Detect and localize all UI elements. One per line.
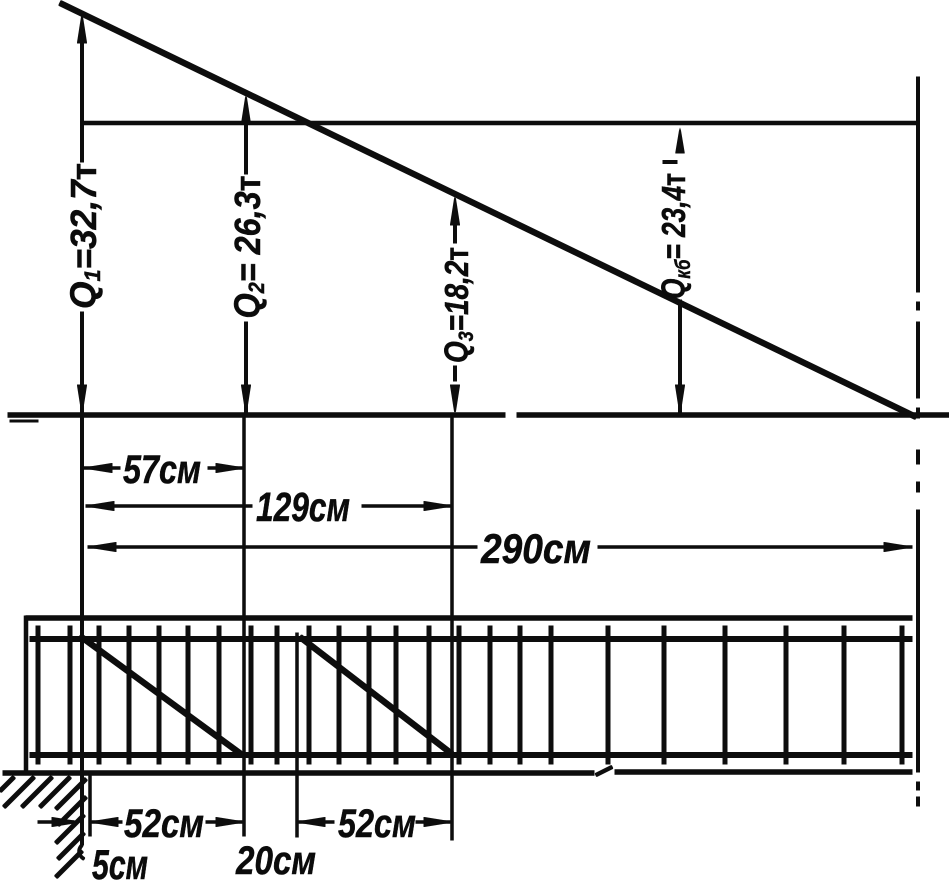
arrow Q1 head down [78,385,87,414]
svg-text:Q1=32,7т: Q1=32,7т [63,163,105,309]
arrow Q1 shaft lower [81,312,84,412]
stirrup x=844 [842,626,846,764]
extension line 5cm offset x=90 [89,773,92,836]
dimension 290cm left head [88,543,116,552]
hatch stroke [56,851,82,877]
stirrup x=129 [127,626,131,764]
dimension 57cm right head [216,464,244,473]
svg-text:52см: 52см [338,802,416,846]
arrow Q2 head down [242,385,251,414]
stirrup x=99 [97,626,101,764]
hatch stroke [4,777,34,807]
stirrup x=786 [784,626,788,764]
stirrup x=396 [394,626,398,764]
stirrups group [38,626,902,764]
extension line x=297 [296,633,299,837]
dimension 5cm outside arrow head [52,818,80,827]
dimension 129cm right head [424,502,452,511]
stirrup x=219 [217,626,221,764]
stirrup x=70 [68,626,72,764]
arrow Q3 shaft upper dash [454,226,457,243]
hatch stroke [22,777,52,807]
dimension 52cm (2) left stub [297,821,334,824]
arrow Qkb shaft lower [679,300,682,412]
arrow Q1 head up [78,14,87,43]
bent bar 2 [300,637,452,754]
stirrup x=608 [606,626,610,764]
bottom rebar [30,753,912,758]
stirrup x=551 [549,626,553,764]
stirrup x=459 [457,626,461,764]
svg-text:52см: 52см [124,802,204,846]
stirrup x=277 [275,626,279,764]
dimension 57cm right stub [208,467,244,470]
baseline right segment [517,413,949,418]
top horizontal reference line [82,121,919,125]
arrow Q2 shaft upper [245,118,248,174]
arrow Q3 head up [451,196,460,225]
arrow Q1 shaft upper [81,38,84,162]
hatch stroke [56,815,84,843]
stirrup x=251 [249,626,253,764]
stirrup x=725 [723,626,727,764]
dimension 129cm left shaft [86,505,252,508]
extension line curl at bottom of support line [79,845,84,859]
stirrup x=159 [157,626,161,764]
beam bottom small tick at break [596,767,612,775]
svg-text:5см: 5см [92,841,148,887]
dimension 290cm right head [884,543,912,552]
dimension 52cm (1) left head [90,818,118,827]
baseline start tick [10,420,38,422]
dimension 290cm right shaft [598,546,912,549]
extension line x=244 [243,415,246,836]
arrow Q2 shaft lower [245,322,248,412]
dimension 52cm (2) right head [424,818,452,827]
hatch stroke [40,777,70,807]
top rebar [30,637,912,642]
stirrup x=188 [186,626,190,764]
svg-text:Qкб= 23,4т: Qкб= 23,4т [655,173,695,299]
shear envelope diagonal line [60,3,916,417]
stirrup x=38 [36,626,40,764]
beam left edge [24,616,28,775]
arrow Qkb leader dash [663,161,677,164]
stirrup x=664 [662,626,666,764]
stirrup x=429 [427,626,431,764]
dimension 57cm left head [84,464,112,473]
centerline dash-dot x=918 [917,77,920,806]
dimension 52cm (1) left stub [90,821,122,824]
svg-text:290см: 290см [480,525,591,572]
svg-text:129см: 129см [256,484,350,530]
stirrup x=309 [307,626,311,764]
svg-text:Q3=18,2т: Q3=18,2т [438,247,478,363]
hatch stroke [58,797,86,825]
extension line at support x=82 [81,415,84,845]
arrow Qkb head up [676,128,684,153]
dimension 129cm right shaft [362,505,452,508]
hatch stroke [58,833,84,859]
stirrup x=369 [367,626,371,764]
dimension 5cm outside arrow shaft [38,821,74,824]
dimension 52cm (2) left head [297,818,325,827]
dimension 290cm left shaft [88,546,477,549]
dimension 52cm (1) right head [216,818,244,827]
dimension 129cm left head [86,502,114,511]
arrow Q3 shaft lower dash [454,366,457,381]
arrow Q2 head up [242,95,251,124]
beam top edge [26,616,912,621]
stirrup x=339 [337,626,341,764]
svg-text:20см: 20см [235,839,316,883]
stirrup x=902 [900,626,904,764]
support hatching [0,777,86,877]
dimension 57cm left stub [84,467,120,470]
svg-text:Q2= 26,3т: Q2= 26,3т [227,176,269,319]
arrow Q3 head down [451,385,460,414]
baseline (zero axis) left segment [8,413,505,418]
arrow Qkb head down [676,385,685,414]
stirrup x=490 [488,626,492,764]
dimension 52cm (1) right stub [206,821,244,824]
beam bottom edge right part [615,770,912,775]
beam bottom edge / support top [3,771,594,776]
extension line x=452 [451,415,454,840]
hatch stroke [56,779,86,809]
bent bar 1 [80,636,241,754]
hatch stroke [0,777,14,791]
stirrup x=520 [518,626,522,764]
dimension 52cm (2) right stub [416,821,452,824]
svg-text:57см: 57см [123,448,201,492]
